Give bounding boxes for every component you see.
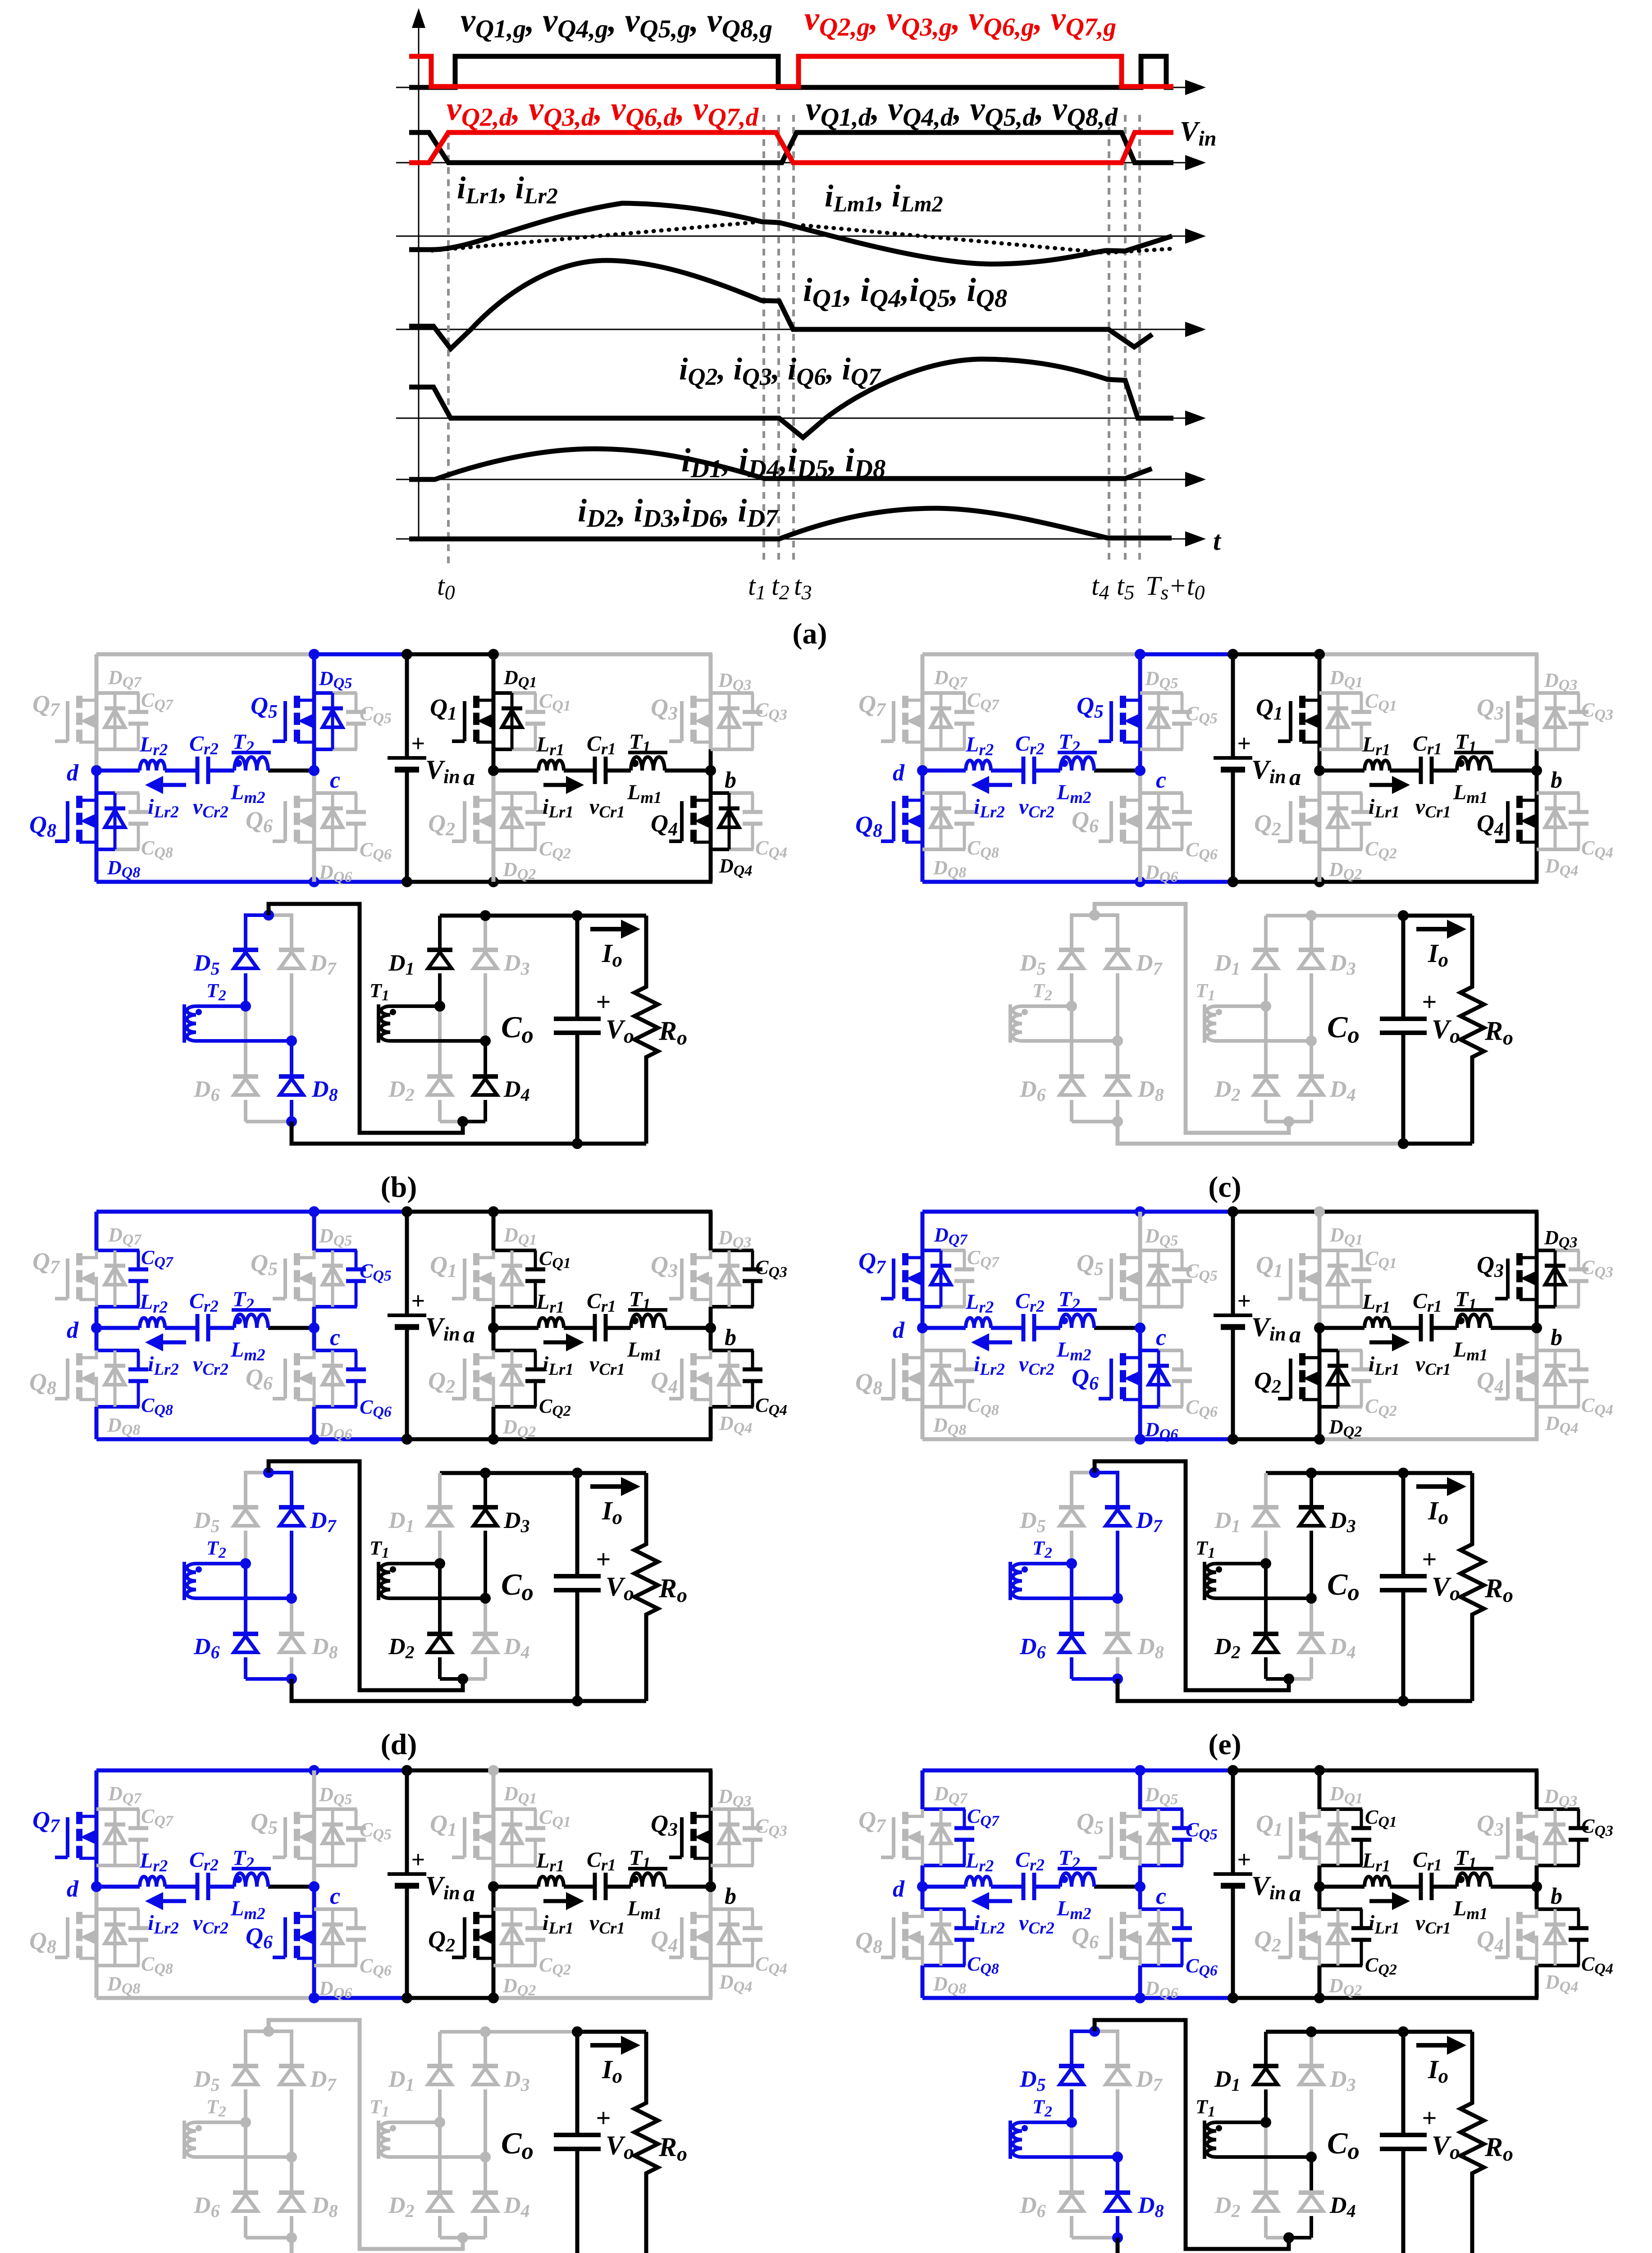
body diode DQ2 [502,1350,536,1440]
node a [463,1881,499,1906]
body diode DQ5 [1145,667,1178,749]
body diode DQ4 [1545,1350,1578,1437]
transistor Q6 [1072,1909,1140,1966]
svg-text:d: d [67,1318,79,1343]
snubber capacitor CQ2 [525,793,571,862]
wire leg segments Q5/Q6 [314,654,357,882]
wire bottom rail [922,1437,1538,1441]
diode D4 [1289,1041,1356,1122]
transistor Q6 [246,1350,314,1407]
wire top rail [96,1769,712,1773]
transformer secondary T2 [184,1537,292,1600]
svg-text:b: b [725,1884,736,1909]
wire series link between rectifiers [269,904,463,1133]
waveform iLr1 iLr2 [409,203,1172,264]
vertical axis [412,8,425,539]
transistor Q6 [246,796,314,842]
body diode DQ5 [1145,1225,1178,1307]
body diode DQ6 [319,1350,352,1443]
circuit panel (d) [29,1206,787,1761]
diode D6 [1019,1006,1118,1122]
wire mid rail left tank [96,769,314,773]
svg-text:a: a [463,1881,475,1906]
wire leg segments Q5/Q6 [1140,1770,1183,1998]
snubber capacitor CQ5 [1172,1809,1218,1865]
diode D6 [1019,1564,1118,1679]
snubber capacitor CQ5 [1172,1250,1218,1307]
svg-text:c: c [1156,767,1166,793]
wire leg segments Q7/Q8 [96,1770,139,1998]
transistor Q2 [428,1912,493,1958]
node c [309,765,340,793]
body diode DQ2 [1328,793,1362,883]
waveform iLm1 iLm2 dotted [432,222,1172,253]
diode D4 [1289,1598,1356,1679]
inductor Lr2 [965,1849,994,1887]
transistor Q2 [1254,1909,1319,1966]
svg-text:c: c [330,1884,340,1909]
transistor Q1 [1256,694,1319,742]
inductor Lr1 [1362,733,1390,771]
svg-text:+: + [411,730,425,757]
wire mid rail right tank [493,1885,711,1889]
transistor Q4 [651,1350,711,1407]
label iD2 group [578,493,779,533]
diode D7 [1105,913,1163,1041]
wire leg segments Q3/Q4 [1537,1212,1579,1439]
diode D6 [193,1006,292,1122]
transistor Q8 [855,1353,922,1400]
wire left bridge top jogs [1072,2030,1118,2033]
svg-text:+: + [596,1545,611,1574]
panel label (a) [793,617,827,650]
wire bottom rail [922,1996,1538,2000]
wire bottom rail [96,1437,712,1441]
transformer primary T1 / Lm1 [1453,730,1493,807]
svg-text:+: + [596,2103,611,2133]
snubber capacitor CQ8 [128,1350,173,1418]
svg-text:t: t [1213,526,1222,556]
body diode DQ2 [502,1909,536,1999]
diode D1 [388,916,452,1006]
snubber capacitor CQ1 [1351,1247,1397,1307]
panel label (c) [1208,1171,1241,1204]
wire leg segments Q7/Q8 [922,654,965,882]
snubber capacitor CQ3 [743,1809,787,1865]
body diode DQ5 [319,667,352,749]
resistor Ro [634,916,687,1144]
wire leg segments Q5/Q6 [314,1770,357,1998]
node c [1135,1323,1166,1350]
transistor Q7 [858,1248,922,1300]
snubber capacitor CQ5 [1172,693,1218,749]
voltage source Vin [388,654,460,882]
labels t4 t5 Ts+t0 [1091,571,1205,604]
snubber capacitor CQ2 [525,1909,571,1978]
wire output bottom rail [1118,1679,1472,1701]
inductor Lr1 [536,733,564,771]
diode D6 [193,1564,292,1679]
resistor Ro [1460,2032,1513,2253]
node c [309,1323,340,1350]
transistor Q8 [855,796,922,842]
circuit panel (b) [29,649,787,1204]
wire output bottom rail [1118,1122,1472,1144]
transistor Q1 [430,694,493,742]
inductor Lr2 [139,733,168,771]
diode D6 [1019,2122,1118,2238]
body diode DQ7 [931,1224,968,1307]
panel label (e) [1208,1728,1241,1761]
body diode DQ7 [931,1783,968,1865]
junction dots right bridge [1260,1468,1317,1684]
label Vin level [1180,116,1216,151]
body diode DQ7 [105,1783,142,1865]
wire series link between rectifiers [1095,904,1289,1133]
voltage source Vin [388,1212,460,1439]
wire bottom rail [922,880,1538,884]
svg-text:+: + [411,1287,425,1314]
body diode DQ6 [319,1909,352,2002]
wire leg segments Q7/Q8 [922,1212,965,1439]
snubber capacitor CQ2 [1351,1909,1397,1978]
time axis row iD1 group [396,472,1206,487]
diode D5 [193,2030,258,2122]
circuit panel (g) [855,1765,1613,2253]
junction dots right bridge [434,1468,491,1684]
transformer primary T1 / Lm1 [627,1287,667,1364]
dashed gridline t2 [777,115,780,565]
body diode DQ5 [319,1225,352,1307]
wire leg segments Q3/Q4 [711,1212,753,1439]
body diode DQ8 [931,1909,966,1997]
inductor Lr1 [1362,1849,1390,1887]
transistor Q1 [430,1810,493,1858]
svg-text:+: + [596,987,611,1017]
body diode DQ3 [1544,1227,1577,1307]
wire output top rail [1266,2030,1472,2034]
snubber capacitor CQ1 [1351,690,1397,749]
transistor Q7 [858,1806,922,1865]
svg-text:c: c [1156,1884,1166,1909]
diode D8 [279,2157,338,2238]
transistor Q2 [1254,796,1319,842]
snubber capacitor CQ6 [1172,793,1218,863]
diode D8 [279,1598,338,1679]
body diode DQ8 [931,1350,966,1438]
wire mid rail left tank [96,1326,314,1330]
junction dots right bridge [434,2026,491,2243]
voltage source Vin [388,1770,460,1998]
dashed gridline t3 [792,115,795,565]
dashed gridline t1 [762,115,765,565]
transformer primary T2 / Lm2 [230,730,271,807]
svg-text:a: a [1289,1322,1301,1348]
svg-text:a: a [463,1322,475,1348]
body diode DQ4 [1545,793,1578,879]
transformer primary T1 / Lm1 [1453,1846,1493,1923]
body diode DQ2 [502,793,536,883]
inductor Lr2 [965,1290,994,1328]
snubber capacitor CQ8 [128,793,173,861]
circuit panel (f) [29,1765,787,2253]
current arrow iLr1 [1369,776,1410,821]
diode D7 [1105,1471,1163,1598]
svg-text:d: d [893,760,905,786]
wire leg segments Q3/Q4 [1537,654,1579,882]
svg-text:(d): (d) [381,1728,417,1761]
transformer secondary T2 [184,2096,292,2159]
transistor Q8 [855,1909,922,1966]
node d [893,760,928,786]
diode D1 [1214,1473,1278,1564]
diode D4 [463,1041,530,1122]
body diode DQ4 [719,793,752,879]
svg-text:c: c [1156,1325,1166,1350]
capacitor Cr2 [1015,1848,1054,1938]
junction dots right bridge [1260,910,1317,1127]
transformer secondary T2 [1010,980,1118,1043]
snubber capacitor CQ3 [743,1250,787,1307]
transformer primary T1 / Lm1 [1453,1287,1493,1364]
body diode DQ2 [1328,1350,1362,1440]
transistor Q2 [428,1350,493,1407]
wire output bottom rail [292,1122,646,1144]
body diode DQ1 [1328,666,1363,749]
diode D5 [193,913,258,1006]
current arrow Io [1416,2036,1466,2087]
svg-text:(c): (c) [1208,1171,1241,1204]
wire top rail [96,652,712,657]
body diode DQ1 [502,1783,537,1865]
waveform iQ1 iQ4 iQ5 iQ8 [409,260,1152,349]
time axis row iLr [396,228,1206,244]
current arrow iLr2 [971,776,1012,821]
label + Vo [1422,1545,1460,1605]
current arrow iLr1 [543,1333,584,1379]
wire left bridge top jogs [1072,913,1118,917]
node b [705,1881,736,1909]
capacitor Co [501,2026,601,2253]
transformer secondary T1 [370,1537,485,1600]
capacitor Co [501,910,601,1149]
diode D2 [388,1564,463,1679]
body diode DQ6 [1145,793,1178,885]
panel label (d) [381,1728,417,1761]
diode D3 [473,1473,530,1598]
node b [1531,1881,1562,1909]
wire bottom rail [96,880,712,884]
body diode DQ4 [1545,1909,1578,1995]
capacitor Co [501,1468,601,1706]
voltage source Vin [1214,1770,1286,1998]
time axis row v_gate [396,80,1206,95]
junction dots left bridge [1066,1467,1123,1684]
transistor Q5 [1077,1808,1140,1865]
wire leg segments Q1/Q2 [1319,1212,1362,1439]
transistor Q4 [1477,1909,1537,1966]
waveform iD2 iD3 iD6 iD7 [409,508,1172,539]
current arrow Io [590,2036,640,2087]
svg-text:b: b [1551,1325,1562,1350]
transformer secondary T2 [1010,2096,1118,2159]
svg-text:+: + [1422,1545,1437,1574]
snubber capacitor CQ3 [1569,693,1613,749]
transistor Q5 [251,1808,314,1858]
transistor Q4 [1477,1353,1537,1400]
label drain red [447,91,759,132]
capacitor Cr1 [587,732,625,821]
junction dots on rails [309,649,499,887]
transistor Q3 [651,1250,711,1307]
wire left bridge top jogs [246,913,292,917]
current arrow iLr1 [1369,1892,1410,1938]
current arrow iLr1 [543,776,584,821]
snubber capacitor CQ2 [1351,1350,1397,1419]
snubber capacitor CQ8 [954,1350,999,1418]
label + Vo [1422,2103,1460,2163]
svg-text:a: a [463,765,475,790]
snubber capacitor CQ6 [346,1909,392,1979]
capacitor Cr2 [1015,1289,1054,1379]
label + Vo [596,2103,634,2163]
gate waveform vQ2,g group (red) [409,56,1173,87]
capacitor Cr2 [189,1289,228,1379]
transistor Q7 [32,1248,96,1307]
time axis row iQ2 group [396,410,1206,426]
body diode DQ5 [319,1783,352,1865]
diode D7 [279,1471,337,1598]
wire top rail [922,1210,1538,1214]
diode D3 [1299,2032,1356,2157]
transistor Q4 [1477,796,1537,842]
body diode DQ3 [1544,669,1577,749]
junction dots left bridge [240,910,297,1127]
junction dots right bridge [1260,2026,1317,2243]
snubber capacitor CQ6 [1172,1909,1218,1979]
diode D7 [279,2030,337,2157]
body diode DQ6 [1145,1909,1178,2002]
diode D8 [1105,1598,1164,1679]
svg-text:+: + [1237,1287,1251,1314]
diode D2 [1214,1564,1289,1679]
snubber capacitor CQ8 [954,1909,999,1977]
body diode DQ8 [105,793,140,881]
transistor Q7 [32,1806,96,1858]
transistor Q3 [1477,1809,1537,1865]
current arrow iLr2 [971,1333,1012,1379]
diode D2 [388,1006,463,1122]
capacitor Cr1 [587,1289,625,1379]
wire mid rail right tank [493,1326,711,1330]
snubber capacitor CQ4 [743,1350,787,1418]
body diode DQ1 [1328,1783,1363,1865]
transformer secondary T2 [1010,1537,1118,1600]
current arrow Io [590,1477,640,1528]
snubber capacitor CQ7 [128,1246,174,1307]
transistor Q3 [651,1810,711,1858]
panel label (b) [381,1171,417,1204]
wire mid rail left tank [96,1885,314,1889]
transistor Q4 [651,1912,711,1958]
capacitor Cr2 [1015,732,1054,821]
transformer secondary T1 [1196,2096,1311,2159]
wire mid rail right tank [1319,1326,1537,1330]
dashed gridline t4 [1108,115,1110,565]
snubber capacitor CQ1 [525,1806,571,1865]
snubber capacitor CQ1 [1351,1806,1397,1865]
current arrow iLr2 [145,1892,186,1938]
body diode DQ6 [1145,1350,1178,1443]
svg-text:+: + [1422,987,1437,1017]
diode D1 [388,2032,452,2122]
node d [893,1876,928,1902]
wire leg segments Q1/Q2 [1319,1770,1362,1998]
transformer secondary T1 [370,980,485,1043]
transistor Q2 [428,796,493,842]
body diode DQ4 [719,1350,752,1437]
body diode DQ6 [319,793,352,885]
body diode DQ8 [105,1909,140,1997]
snubber capacitor CQ7 [128,1805,174,1865]
body diode DQ3 [718,1227,751,1307]
svg-text:b: b [725,767,736,793]
wire series link between rectifiers [269,2020,463,2249]
wire mid rail left tank [922,769,1140,773]
node a [463,765,499,790]
wire leg segments Q7/Q8 [96,654,139,882]
wire output top rail [440,2030,646,2034]
wire output bottom rail [292,1679,646,1701]
body diode DQ7 [931,666,968,749]
label iQ2 group [679,352,881,390]
diode D2 [388,2122,463,2238]
waveform iQ2 iQ3 iQ6 iQ7 [409,359,1173,438]
label iLm [825,179,943,216]
transformer secondary T1 [1196,980,1311,1043]
transformer primary T1 / Lm1 [627,730,667,807]
junction dots on rails [1135,1206,1325,1445]
wire left bridge top jogs [1072,1471,1118,1474]
transistor Q6 [1072,796,1140,842]
diode D4 [463,2157,530,2238]
transistor Q6 [1072,1353,1140,1400]
dashed gridline t5 [1124,115,1127,565]
inductor Lr2 [139,1849,168,1887]
time axis row iD2 group with t label [396,526,1222,556]
transistor Q1 [430,1250,493,1307]
current arrow Io [590,920,640,971]
node b [1531,765,1562,793]
snubber capacitor CQ7 [954,1805,1000,1865]
diode D2 [1214,1006,1289,1122]
label iLr [457,171,558,208]
wire top rail [922,1769,1538,1773]
svg-text:d: d [67,1876,79,1902]
snubber capacitor CQ5 [346,1250,392,1307]
inductor Lr1 [536,1849,564,1887]
junction dots on rails [1135,649,1325,887]
capacitor Cr2 [189,1848,228,1938]
transistor Q5 [1077,1250,1140,1300]
node a [1289,765,1325,790]
wire mid rail right tank [1319,769,1537,773]
transistor Q8 [29,1350,96,1407]
svg-text:(e): (e) [1208,1728,1241,1761]
waveform iD1 iD4 iD5 iD8 [409,449,1152,479]
diode D3 [473,2032,530,2157]
svg-text:+: + [1422,2103,1437,2133]
